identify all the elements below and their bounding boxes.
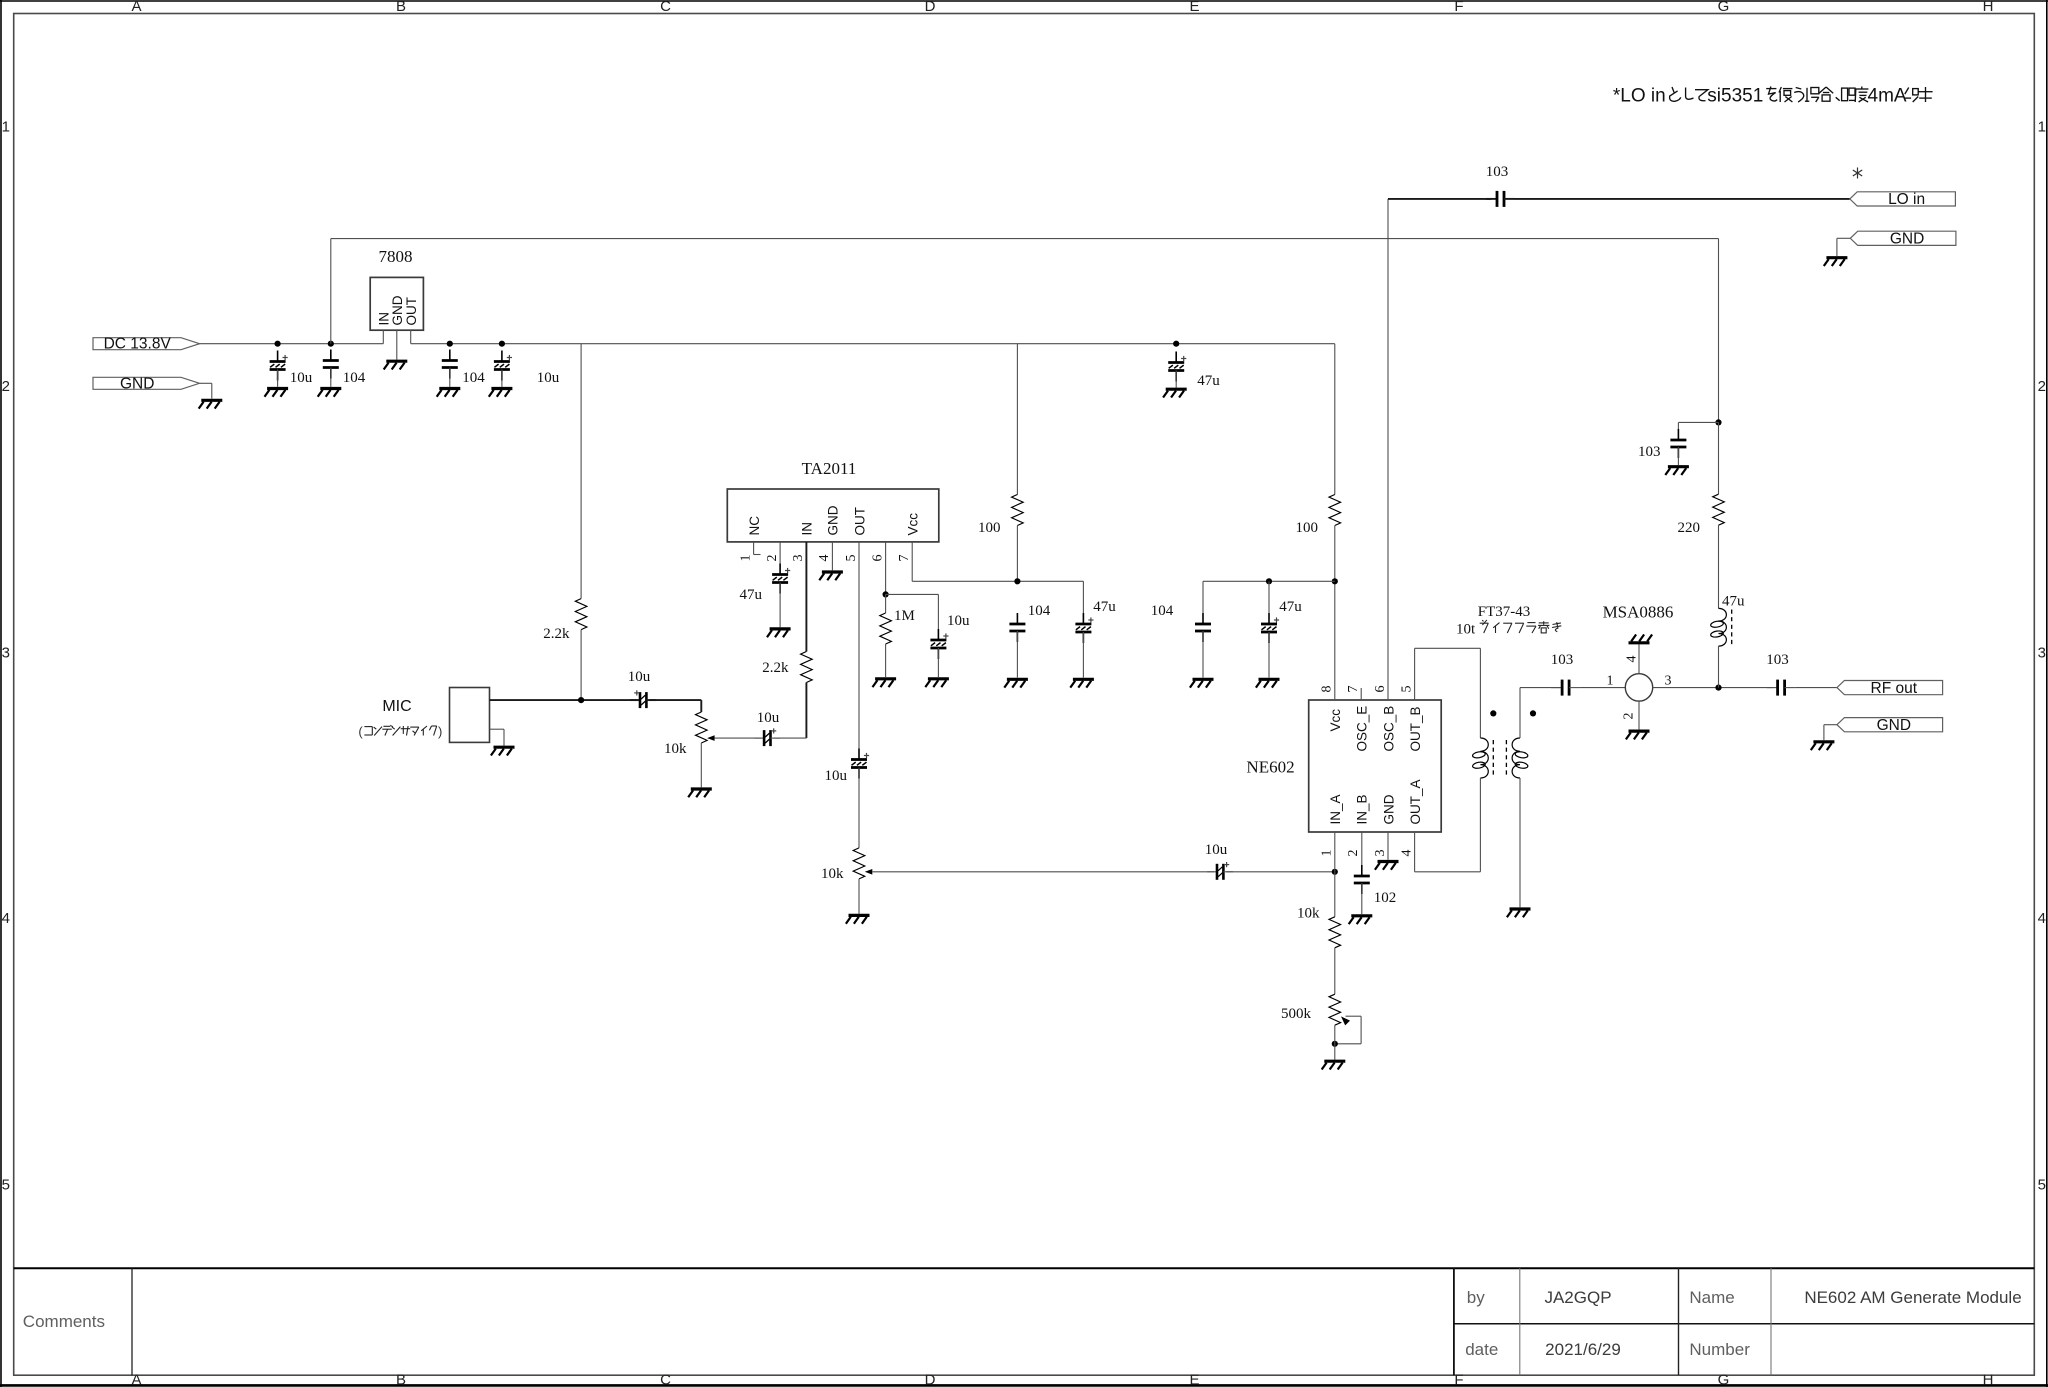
svg-text:5: 5 xyxy=(2038,1177,2046,1194)
wire gnd flag stub xyxy=(200,382,212,384)
wire MSA pin4 xyxy=(1638,644,1640,673)
asterisk mark xyxy=(1857,168,1859,179)
svg-text:4: 4 xyxy=(1399,850,1414,857)
wire xyxy=(449,368,451,387)
svg-text:Name: Name xyxy=(1689,1288,1734,1307)
svg-text:100: 100 xyxy=(1296,520,1319,536)
svg-text:2: 2 xyxy=(1346,850,1361,857)
svg-text:GND: GND xyxy=(1381,794,1396,824)
svg-text:1: 1 xyxy=(2038,119,2046,136)
wire TA2011 pin7 xyxy=(911,542,913,581)
IC NE602 xyxy=(1309,700,1442,832)
wire xyxy=(1175,371,1177,388)
wire pin3 to cap xyxy=(805,683,807,739)
capacitor 104 TA2011 xyxy=(1009,613,1025,642)
resistor 2.2k mic bias xyxy=(575,599,587,630)
svg-text:F: F xyxy=(1454,1372,1463,1387)
title block comments box xyxy=(14,1267,2035,1269)
inductor 47u choke xyxy=(1710,608,1726,646)
svg-text:3: 3 xyxy=(1373,850,1388,857)
resistor 1M xyxy=(880,613,892,644)
svg-text:GND: GND xyxy=(120,375,154,392)
ground 47u TA2011 xyxy=(1070,679,1094,687)
wire mic signal xyxy=(490,699,638,701)
svg-text:10k: 10k xyxy=(821,866,844,882)
svg-text:10u: 10u xyxy=(290,370,313,386)
wire xyxy=(774,737,807,739)
wire xyxy=(1016,631,1018,678)
svg-text:103: 103 xyxy=(1766,652,1789,668)
svg-text:A: A xyxy=(131,0,141,15)
ground 104 output xyxy=(437,389,461,397)
svg-text:220: 220 xyxy=(1678,520,1701,536)
svg-text:E: E xyxy=(1189,0,1199,15)
svg-text:10u: 10u xyxy=(757,710,780,726)
svg-text:7: 7 xyxy=(897,555,912,562)
flag GND output xyxy=(1837,717,1943,734)
ground NE602 pin3 xyxy=(1375,862,1399,870)
wire xyxy=(1836,238,1838,256)
wire NE602 pin3 xyxy=(1387,832,1389,860)
svg-text:100: 100 xyxy=(978,520,1001,536)
wire T1 to C103 xyxy=(1520,687,1560,689)
IC TA2011 xyxy=(727,489,939,542)
svg-text:NE602: NE602 xyxy=(1246,758,1294,777)
svg-text:47u: 47u xyxy=(740,587,763,603)
phasing dot T1 secondary xyxy=(1530,710,1536,716)
wire LO to pin6 xyxy=(1387,199,1389,700)
wire NE602 pin5 xyxy=(1414,648,1416,700)
svg-text:NE602 AM Generate Module: NE602 AM Generate Module xyxy=(1804,1288,2021,1307)
wire xyxy=(858,879,860,914)
junction bias top xyxy=(1715,419,1721,425)
wire TA2011 vcc line xyxy=(912,580,1083,582)
svg-text:JA2GQP: JA2GQP xyxy=(1544,1288,1611,1307)
capacitor 10u output xyxy=(494,351,512,381)
junction rail C-10u xyxy=(275,341,281,347)
svg-text:Vcc: Vcc xyxy=(906,513,921,536)
ground T1 xyxy=(1507,909,1531,917)
wire xyxy=(1677,422,1679,429)
capacitor 47u pin2 xyxy=(772,564,790,594)
potentiometer 10k output level xyxy=(853,848,865,879)
svg-text:102: 102 xyxy=(1374,890,1397,906)
wire 13.8V rail left segment xyxy=(200,343,384,345)
wire TA2011 pin6 xyxy=(885,542,887,594)
svg-text:D: D xyxy=(925,1372,936,1387)
wire to 47u xyxy=(1268,581,1270,613)
svg-text:GND: GND xyxy=(390,295,405,325)
wire xyxy=(858,768,860,848)
wire mic to pot xyxy=(649,699,701,701)
label 10t bifilar winding xyxy=(1456,620,1561,638)
wire MSA pin2 xyxy=(1638,701,1640,729)
svg-text:103: 103 xyxy=(1486,164,1509,180)
wire xyxy=(1718,525,1720,608)
svg-text:GND: GND xyxy=(1877,717,1911,734)
svg-text:6: 6 xyxy=(1373,686,1388,693)
svg-text:TA2011: TA2011 xyxy=(802,459,857,478)
svg-text:GND: GND xyxy=(1890,231,1924,248)
ground 103 bypass xyxy=(1665,467,1689,475)
svg-text:B: B xyxy=(396,1372,406,1387)
svg-text:5: 5 xyxy=(2,1177,10,1194)
svg-text:4: 4 xyxy=(2,910,10,927)
ground pot1 xyxy=(688,789,712,797)
title block table xyxy=(1453,1268,1455,1375)
wire 7808 OUT lead xyxy=(410,330,412,344)
wire xyxy=(779,583,781,628)
svg-text:3: 3 xyxy=(2038,645,2046,662)
capacitor 47u NE602 xyxy=(1261,613,1279,643)
svg-text:E: E xyxy=(1189,1372,1199,1387)
microphone MIC xyxy=(450,688,490,743)
wire down to pot xyxy=(700,700,702,712)
svg-text:G: G xyxy=(1718,1372,1730,1387)
flag GND LO xyxy=(1850,231,1956,248)
ground TA2011 pin4 xyxy=(819,572,843,580)
svg-text:6: 6 xyxy=(870,555,885,562)
capacitor 102 xyxy=(1354,865,1370,894)
svg-text:3: 3 xyxy=(791,555,806,562)
ground 47u pin2 xyxy=(767,629,791,637)
capacitor 10u to NE602 xyxy=(1207,862,1233,880)
svg-text:500k: 500k xyxy=(1281,1006,1312,1022)
potentiometer 500k carrier null xyxy=(1329,994,1341,1025)
wire xyxy=(501,370,503,387)
junction NE602 pin1 xyxy=(1332,869,1338,875)
wire pot1 wiper xyxy=(715,737,762,739)
wire T1 secondary bottom xyxy=(1519,778,1521,907)
wire xyxy=(503,729,505,745)
svg-text:FT37-43: FT37-43 xyxy=(1478,604,1531,620)
wire 8V rail xyxy=(411,343,1335,345)
junction rail C-10u out xyxy=(499,341,505,347)
capacitor 47u rail xyxy=(1168,352,1186,382)
wire pin4 to T1 xyxy=(1415,871,1481,873)
resistor 100 TA2011 xyxy=(1012,495,1024,526)
svg-text:G: G xyxy=(1718,0,1730,15)
voltage regulator U? 7808 xyxy=(370,277,423,330)
wire TA2011 pin1 stub xyxy=(753,542,755,555)
wire 13.8V down to bias xyxy=(1718,239,1720,423)
svg-text:4mA: 4mA xyxy=(1868,86,1907,107)
wire gnd flag stub xyxy=(1837,237,1850,239)
junction rail C-104 out xyxy=(447,341,453,347)
wire TA2011 pin4 xyxy=(831,542,833,570)
wire C103 to MSA pin1 xyxy=(1580,687,1625,689)
wire NE602 pin4 xyxy=(1414,832,1416,872)
flag RF out xyxy=(1837,680,1943,697)
svg-text:47u: 47u xyxy=(1722,594,1745,610)
ground at input GND flag xyxy=(199,400,223,408)
svg-text:4: 4 xyxy=(1625,656,1640,663)
wire gnd flag down xyxy=(211,383,213,398)
svg-text:OUT_A: OUT_A xyxy=(1408,779,1423,824)
svg-text:3: 3 xyxy=(2,645,10,662)
svg-text:GND: GND xyxy=(826,505,841,535)
resistor 2.2k input xyxy=(801,652,813,683)
wire T1 primary bottom xyxy=(1479,778,1481,872)
wire wiper down xyxy=(1360,1016,1362,1044)
svg-text:OSC_B: OSC_B xyxy=(1381,706,1396,752)
ground 7808 xyxy=(384,361,408,369)
svg-text:2.2k: 2.2k xyxy=(762,660,789,676)
svg-text:5: 5 xyxy=(844,555,859,562)
amplifier U? MSA0886 xyxy=(1625,674,1652,701)
wire xyxy=(1718,422,1720,494)
svg-text:OSC_E: OSC_E xyxy=(1355,706,1370,752)
wire NE602 pin2 xyxy=(1361,832,1363,865)
svg-text:47u: 47u xyxy=(1197,373,1220,389)
wire xyxy=(885,644,887,677)
svg-text:si5351: si5351 xyxy=(1707,86,1763,107)
wire to 10k xyxy=(1334,872,1336,917)
capacitor 103 bypass xyxy=(1670,429,1686,458)
svg-text:C: C xyxy=(660,1372,671,1387)
ground 102 xyxy=(1349,916,1373,924)
wire TA2011 pin5 xyxy=(858,542,860,749)
junction rail C-47u xyxy=(1173,341,1179,347)
svg-text:IN_A: IN_A xyxy=(1328,794,1343,824)
wire T1 secondary top xyxy=(1519,688,1521,738)
wire to R2.2k xyxy=(580,344,582,599)
svg-text:1M: 1M xyxy=(894,608,915,624)
svg-text:10u: 10u xyxy=(825,768,848,784)
label condenser mic katakana xyxy=(358,724,442,739)
svg-text:A: A xyxy=(131,1372,141,1387)
wire xyxy=(937,648,939,677)
svg-text:OUT: OUT xyxy=(404,297,419,326)
svg-text:Comments: Comments xyxy=(23,1312,105,1331)
svg-text:10u: 10u xyxy=(628,669,651,685)
svg-text:1: 1 xyxy=(738,555,753,562)
svg-text:date: date xyxy=(1465,1340,1498,1359)
svg-text:104: 104 xyxy=(1028,603,1051,619)
svg-text:D: D xyxy=(925,0,936,15)
wire R100 to pin8 xyxy=(1334,526,1336,701)
svg-text:IN_B: IN_B xyxy=(1355,794,1370,824)
svg-text:4: 4 xyxy=(817,555,832,562)
resistor 10k NE602 bias xyxy=(1329,917,1341,948)
svg-text:10k: 10k xyxy=(664,741,687,757)
wire R2.2k to mic node xyxy=(580,630,582,701)
wire 13.8V top run xyxy=(331,238,1719,240)
wire bias branch xyxy=(1678,421,1718,423)
wire wiper left xyxy=(1335,1043,1361,1045)
svg-text:by: by xyxy=(1467,1288,1485,1307)
ground 47u rail xyxy=(1163,389,1187,397)
wire xyxy=(1334,1025,1336,1059)
wire xyxy=(1016,526,1018,582)
wire 13.8V up branch xyxy=(330,239,332,344)
junction vcc 104 xyxy=(1014,578,1020,584)
capacitor 47u TA2011 xyxy=(1075,613,1093,643)
svg-text:OUT: OUT xyxy=(852,507,867,536)
svg-text:10u: 10u xyxy=(537,370,560,386)
capacitor 104 output xyxy=(442,350,458,379)
wire xyxy=(1334,948,1336,994)
wire gnd flag stub xyxy=(1824,724,1837,726)
svg-text:103: 103 xyxy=(1551,652,1574,668)
junction rail C-104 / top feed xyxy=(328,341,334,347)
wire to 1M xyxy=(885,594,887,613)
junction output bias xyxy=(1715,685,1721,691)
svg-text:104: 104 xyxy=(462,370,485,386)
ground 104 input xyxy=(318,389,342,397)
wire rail corner to R100 xyxy=(1334,344,1336,495)
svg-text:1: 1 xyxy=(1320,850,1335,857)
wire xyxy=(700,743,702,787)
wire xyxy=(277,370,279,387)
note: LO in si5351 4mA setting xyxy=(1613,86,1933,107)
svg-text:H: H xyxy=(1983,1372,1994,1387)
wire xyxy=(330,368,332,387)
wire wiper right xyxy=(1346,1015,1362,1017)
svg-text:MIC: MIC xyxy=(382,698,411,715)
svg-text:104: 104 xyxy=(1151,603,1174,619)
svg-text:3: 3 xyxy=(1665,674,1672,689)
svg-text:OUT_B: OUT_B xyxy=(1408,706,1423,751)
ground 10u output xyxy=(489,389,513,397)
resistor 220 xyxy=(1713,494,1725,525)
svg-text:10t: 10t xyxy=(1456,622,1476,638)
wire TA2011 pin2 xyxy=(779,542,781,564)
wire choke to output xyxy=(1718,646,1720,688)
wire pin6 branch xyxy=(886,593,939,595)
capacitor 10u input xyxy=(270,351,288,381)
flag GND input xyxy=(93,375,200,392)
wire xyxy=(1823,725,1825,740)
svg-text:NC: NC xyxy=(747,516,762,536)
svg-text:Vcc: Vcc xyxy=(1328,709,1343,732)
ground 1M xyxy=(873,679,897,687)
capacitor 10u pot to TA2011 xyxy=(754,728,780,746)
ground 10u pin6 xyxy=(925,679,949,687)
ground 10u input xyxy=(265,389,289,397)
wire MSA pin3 out xyxy=(1653,687,1773,689)
svg-text:8: 8 xyxy=(1320,686,1335,693)
wire wiper to NE602 cap xyxy=(872,871,1214,873)
svg-text:C: C xyxy=(660,0,671,15)
capacitor 103 LO xyxy=(1486,191,1515,207)
svg-text:F: F xyxy=(1454,0,1463,15)
ground MSA pin4 inverted xyxy=(1629,635,1653,643)
capacitor 103 output xyxy=(1767,680,1796,696)
wire xyxy=(1268,632,1270,678)
wire 7808 IN lead xyxy=(382,330,384,344)
wire xyxy=(1226,871,1334,873)
wire TA2011 pin3 xyxy=(805,542,807,652)
junction 500k bottom xyxy=(1332,1041,1338,1047)
capacitor 10u out xyxy=(851,749,869,779)
wire NE602 pin1 xyxy=(1334,832,1336,872)
wire xyxy=(1202,631,1204,678)
ground 104 TA2011 xyxy=(1004,679,1028,687)
svg-text:2: 2 xyxy=(1622,713,1637,720)
inductor T1 primary winding xyxy=(1472,738,1488,778)
inductor T1 secondary winding xyxy=(1512,738,1528,778)
capacitor 104 NE602 xyxy=(1195,613,1211,642)
ground 500k xyxy=(1322,1061,1346,1069)
svg-text:LO in: LO in xyxy=(1888,191,1925,208)
svg-text:104: 104 xyxy=(343,370,366,386)
svg-text:IN: IN xyxy=(800,522,815,536)
ground LO GND flag xyxy=(1824,258,1848,266)
svg-text:47u: 47u xyxy=(1093,599,1116,615)
svg-text:H: H xyxy=(1983,0,1994,15)
svg-text:1: 1 xyxy=(2,119,10,136)
svg-text:1: 1 xyxy=(1607,674,1614,689)
svg-text:103: 103 xyxy=(1638,444,1661,460)
wire LO left xyxy=(1388,198,1492,200)
junction NE602 vcc xyxy=(1332,578,1338,584)
svg-text:Number: Number xyxy=(1689,1340,1750,1359)
svg-text:DC 13.8V: DC 13.8V xyxy=(104,336,172,353)
svg-text:): ) xyxy=(438,724,442,739)
svg-text:2.2k: 2.2k xyxy=(543,626,570,642)
potentiometer 10k mic level xyxy=(696,712,708,743)
resistor 100 NE602 xyxy=(1329,495,1341,526)
junction 47u NE602 xyxy=(1266,578,1272,584)
capacitor 104 input xyxy=(323,350,339,379)
ground 47u NE602 xyxy=(1256,679,1280,687)
wire to RF out xyxy=(1796,687,1837,689)
capacitor 10u mic coupling xyxy=(630,690,656,708)
wire mic gnd stub xyxy=(490,728,505,730)
ground MSA pin2 xyxy=(1626,731,1650,739)
wire pin1 tick xyxy=(754,554,761,556)
wire xyxy=(1677,447,1679,465)
wire rail to R100 xyxy=(1016,344,1018,495)
wire T1 primary top xyxy=(1479,648,1481,738)
svg-text:2: 2 xyxy=(2,378,10,395)
wire 7808 GND lead xyxy=(396,330,398,359)
wire NE602 vcc line xyxy=(1203,580,1335,582)
capacitor 103 T1 to MSA xyxy=(1551,680,1580,696)
flag LO in xyxy=(1850,191,1956,208)
wire NE602 pin7 stub xyxy=(1360,688,1362,700)
wire to 104 xyxy=(1202,581,1204,613)
ground mic xyxy=(491,747,515,755)
svg-text:10u: 10u xyxy=(947,613,970,629)
svg-text:47u: 47u xyxy=(1279,599,1302,615)
svg-text:2: 2 xyxy=(765,555,780,562)
svg-text:10u: 10u xyxy=(1205,842,1228,858)
wire to 47u xyxy=(1082,581,1084,613)
wire to 10u xyxy=(937,594,939,629)
wire LO right xyxy=(1515,198,1850,200)
phasing dot T1 primary xyxy=(1490,710,1496,716)
svg-text:(: ( xyxy=(358,724,363,739)
svg-text:7: 7 xyxy=(1346,686,1361,693)
wire xyxy=(1361,883,1363,914)
svg-text:7808: 7808 xyxy=(379,247,413,266)
svg-text:10k: 10k xyxy=(1297,906,1320,922)
svg-text:RF out: RF out xyxy=(1871,680,1918,697)
junction mic bias xyxy=(578,697,584,703)
ground 104 NE602 xyxy=(1190,679,1214,687)
junction pin6 xyxy=(883,591,889,597)
svg-text:2: 2 xyxy=(2038,378,2046,395)
ground output GND flag xyxy=(1811,742,1835,750)
wire xyxy=(1082,632,1084,678)
flag DC 13.8V xyxy=(93,336,200,353)
ground pot2 xyxy=(846,915,870,923)
svg-text:MSA0886: MSA0886 xyxy=(1603,603,1674,622)
wire pin5 to T1 top xyxy=(1415,647,1481,649)
svg-text:4: 4 xyxy=(2038,910,2046,927)
